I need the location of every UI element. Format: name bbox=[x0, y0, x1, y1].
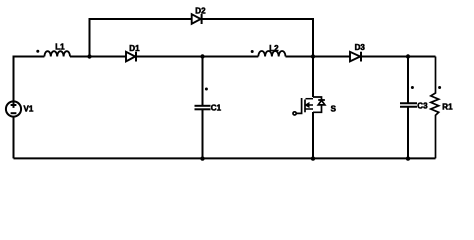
dot marker C3 bbox=[411, 86, 414, 89]
node junction mosfet source bottom bbox=[311, 156, 315, 160]
node junction C3 top bbox=[406, 54, 410, 58]
inductor L2 bbox=[258, 51, 285, 57]
node junction C3 bottom bbox=[406, 156, 410, 160]
diode D1 bbox=[126, 52, 136, 62]
diode D3 bbox=[350, 52, 361, 62]
svg-text:D2: D2 bbox=[195, 7, 206, 16]
wire V1 bottom to bottom rail bbox=[13, 117, 15, 159]
voltage source V1 bbox=[6, 101, 21, 116]
wire D3 to output bbox=[361, 56, 436, 58]
capacitor C3 bbox=[400, 103, 417, 107]
node junction C1 bottom bbox=[200, 156, 204, 160]
node junction switch node bbox=[311, 54, 315, 58]
wire D2 to switch-node vertical bbox=[202, 19, 313, 57]
svg-text:L1: L1 bbox=[55, 43, 65, 52]
wire bottom rail bbox=[14, 157, 436, 159]
transistor Q1 mosfet S bbox=[293, 97, 325, 115]
dot marker L2 bbox=[251, 50, 254, 53]
wire C3 top lead bbox=[407, 57, 409, 103]
svg-text:R1: R1 bbox=[442, 102, 453, 111]
svg-text:C3: C3 bbox=[417, 101, 428, 110]
svg-text:V1: V1 bbox=[24, 105, 34, 114]
svg-text:D3: D3 bbox=[355, 43, 366, 52]
wire drain lead bbox=[312, 57, 314, 98]
wire D1 to L2 bbox=[136, 56, 258, 58]
diode D2 bbox=[192, 14, 202, 24]
svg-text:S: S bbox=[331, 105, 337, 114]
capacitor C1 bbox=[195, 106, 211, 110]
svg-text:C1: C1 bbox=[211, 103, 222, 112]
wire source lead to bottom rail bbox=[312, 112, 314, 158]
node junction C1 top bbox=[200, 54, 204, 58]
wire C1 bottom lead bbox=[202, 110, 204, 158]
dot marker L1 bbox=[36, 50, 39, 53]
wire C3 bottom lead bbox=[407, 107, 409, 158]
resistor R1 bbox=[431, 57, 439, 159]
wire L2 to D3 bbox=[286, 56, 351, 58]
wire C1 top lead bbox=[202, 57, 204, 106]
node junction at L1/top-branch bbox=[87, 54, 91, 58]
dot marker R1 bbox=[438, 86, 441, 89]
svg-text:L2: L2 bbox=[269, 44, 279, 53]
wire L1 to D1 bbox=[70, 56, 126, 58]
dot marker C1 bbox=[205, 88, 208, 91]
svg-text:D1: D1 bbox=[129, 44, 140, 53]
inductor L1 bbox=[44, 51, 70, 56]
wire left vertical (V1 to top rail) bbox=[14, 57, 45, 102]
wire junction up to top rail bbox=[90, 19, 192, 57]
